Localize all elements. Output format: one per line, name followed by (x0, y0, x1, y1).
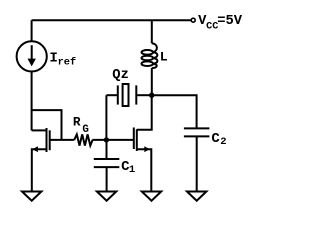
M2 source arrow (144, 146, 150, 152)
M1 source arrow (32, 146, 38, 152)
ground (M2 source) (142, 192, 161, 201)
resistor RG (74, 134, 92, 145)
ground (M1 source) (22, 192, 41, 201)
wire M2 source lead (137, 149, 152, 191)
wire bias branch to drain loop (32, 110, 62, 140)
transistor Q1 channel bar (46, 128, 48, 152)
wire node line to M2 gate (92, 139, 133, 141)
ground (C1) (97, 192, 116, 201)
inductor L (142, 20, 158, 95)
transistor Q2 gate bar (133, 128, 135, 150)
wire left rail upper (31, 20, 33, 41)
transistor Q2 channel bar (136, 129, 138, 151)
wire M1 source lead (32, 149, 47, 191)
wire current source bottom to gate corner (31, 72, 33, 131)
wire node A to C2 (152, 95, 197, 128)
svg-text:R: R (73, 115, 81, 130)
wire M1 gate to resistor (50, 139, 74, 141)
wire crystal riser (105, 95, 107, 140)
svg-text:Qz: Qz (112, 68, 129, 83)
ground (C2) (187, 192, 206, 201)
junction node A dot (149, 93, 154, 98)
capacitor C2 (184, 128, 210, 136)
junction node B dot (104, 137, 109, 142)
wire C1 drop (106, 140, 108, 159)
wire M1 drain lead (32, 129, 47, 131)
svg-text:=5V: =5V (217, 14, 243, 29)
svg-text:G: G (82, 124, 88, 136)
wire M2 drain (137, 95, 152, 130)
wire top rail (32, 19, 191, 21)
wire C2 bottom (196, 136, 198, 191)
wire C1 bottom (106, 167, 108, 191)
svg-text:1: 1 (129, 164, 135, 176)
capacitor C1 (94, 159, 120, 167)
svg-text:ref: ref (58, 57, 77, 69)
svg-text:2: 2 (220, 136, 226, 148)
svg-text:C: C (211, 131, 220, 147)
VCC terminal circle (191, 18, 195, 22)
crystal QZ (106, 84, 151, 106)
transistor Q1 gate bar (49, 130, 51, 150)
svg-text:L: L (160, 50, 168, 65)
current source I_ref (17, 41, 47, 71)
